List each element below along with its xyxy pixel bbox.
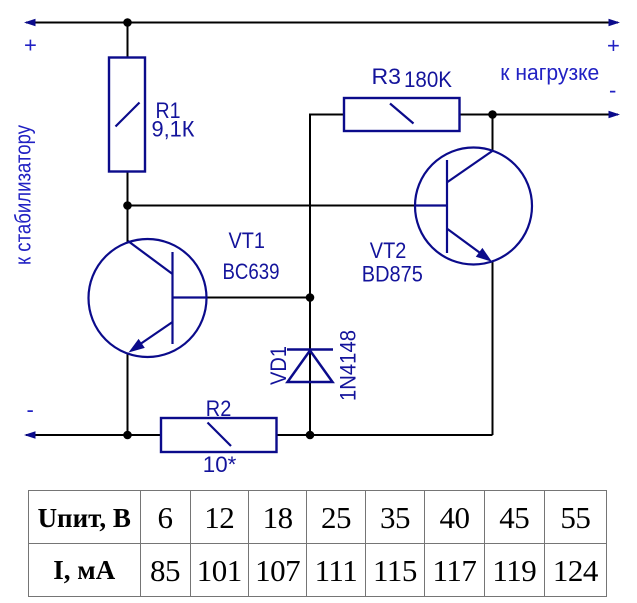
wire VT1 base to node bbox=[205, 297, 310, 299]
wire VT2 collector bbox=[492, 115, 494, 152]
wire R3 right to output bbox=[460, 114, 619, 116]
svg-text:180K: 180K bbox=[404, 67, 452, 92]
resistor R2 bbox=[161, 418, 277, 452]
svg-text:9,1К: 9,1К bbox=[152, 117, 195, 142]
wire R1 bottom to node bbox=[127, 171, 129, 206]
wire top rail bbox=[26, 22, 618, 24]
arrow output-right bbox=[609, 111, 621, 119]
svg-text:к нагрузке: к нагрузке bbox=[500, 60, 599, 85]
wire bottom rail bbox=[26, 434, 493, 436]
svg-text:-: - bbox=[27, 397, 34, 422]
svg-text:R2: R2 bbox=[206, 396, 232, 421]
wire VT2 emitter down bbox=[492, 261, 494, 435]
arrow top-left bbox=[24, 19, 36, 27]
arrow bottom-left bbox=[24, 431, 36, 439]
wire VT1 emitter down bbox=[127, 353, 129, 435]
svg-text:VT1: VT1 bbox=[229, 228, 266, 253]
junction node top rail bbox=[123, 18, 132, 27]
wire R3 left branch bbox=[310, 115, 344, 436]
junction node VT1 base bbox=[306, 293, 315, 302]
svg-text:R3: R3 bbox=[372, 64, 402, 89]
svg-text:VT2: VT2 bbox=[370, 238, 407, 263]
wire node to VT1 collector bbox=[127, 206, 129, 244]
svg-text:BC639: BC639 bbox=[223, 259, 280, 284]
resistor R1 bbox=[109, 58, 145, 172]
table of measurements bbox=[28, 490, 607, 597]
diode VD1 bbox=[287, 350, 333, 383]
svg-text:-: - bbox=[609, 78, 616, 103]
junction node output bbox=[488, 110, 497, 119]
transistor VT2 bbox=[415, 148, 532, 265]
wire R1 top bbox=[127, 23, 129, 59]
junction node bottom VD1 bbox=[306, 431, 315, 440]
svg-text:10*: 10* bbox=[203, 452, 237, 477]
junction node R1 bottom bbox=[123, 201, 132, 210]
svg-text:к стабилизатору: к стабилизатору bbox=[11, 125, 36, 265]
arrow top-right bbox=[609, 19, 621, 27]
wire node to VT2 base bbox=[128, 205, 416, 207]
svg-text:BD875: BD875 bbox=[362, 262, 423, 287]
svg-text:VD1: VD1 bbox=[266, 346, 291, 385]
svg-text:+: + bbox=[24, 33, 37, 58]
svg-text:1N4148: 1N4148 bbox=[336, 330, 361, 401]
junction node bottom VT1 emitter bbox=[123, 431, 132, 440]
transistor VT1 bbox=[89, 239, 208, 357]
resistor R3 bbox=[344, 98, 460, 131]
svg-text:+: + bbox=[607, 33, 620, 58]
